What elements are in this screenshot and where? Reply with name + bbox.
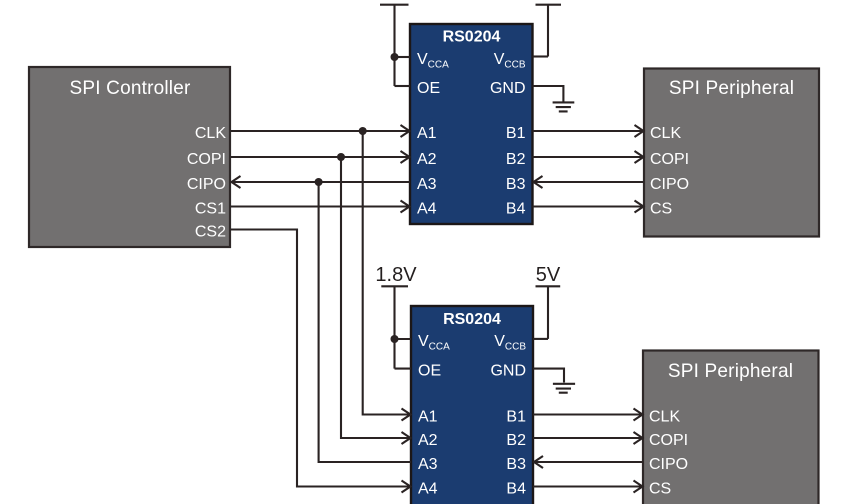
- svg-text:CIPO: CIPO: [649, 456, 688, 473]
- svg-text:A4: A4: [418, 480, 438, 497]
- svg-text:B1: B1: [506, 125, 526, 142]
- wire CIPO to B3 (bottom peripheral): [535, 461, 644, 463]
- svg-text:A1: A1: [417, 125, 437, 142]
- wire VCCB stub (U2): [533, 338, 548, 340]
- wire CLK branch to A1 (U2): [363, 131, 410, 415]
- svg-text:B4: B4: [506, 480, 526, 497]
- svg-text:OE: OE: [417, 80, 440, 97]
- svg-text:SPI Peripheral: SPI Peripheral: [669, 78, 794, 99]
- arrowhead CIPO (controller): [232, 176, 241, 188]
- svg-text:1.8V: 1.8V: [375, 264, 417, 286]
- wire VCCB stub (U1): [533, 55, 549, 57]
- svg-text:A4: A4: [417, 200, 437, 217]
- junction dot CLK branch: [359, 127, 367, 135]
- arrowhead B1 (top peripheral): [635, 125, 644, 137]
- junction dot COPI branch: [337, 153, 345, 161]
- wire VCCA stub (U1): [395, 56, 411, 58]
- svg-text:COPI: COPI: [649, 432, 688, 449]
- supply rail VCCB (top, unlabeled): [536, 5, 562, 57]
- arrowhead A4 (U1): [401, 201, 410, 213]
- wire VCCA stub (U2): [395, 338, 412, 340]
- svg-text:B1: B1: [506, 408, 526, 425]
- SPI Peripheral box (top): [644, 69, 819, 237]
- wire CLK to A1: [231, 130, 409, 132]
- arrowhead A2 (U1): [401, 151, 410, 163]
- arrowhead A1 (U2): [402, 409, 411, 421]
- level shifter U1 RS0204 (top): [410, 24, 533, 224]
- wire COPI branch to A2 (U2): [341, 157, 410, 438]
- wire CS1 to A4: [231, 205, 409, 207]
- svg-text:B2: B2: [506, 432, 526, 449]
- junction dot CIPO branch: [315, 178, 323, 186]
- junction dot VCCA (U2): [391, 335, 399, 343]
- wire GND (U1): [533, 86, 564, 102]
- svg-text:CS1: CS1: [195, 200, 226, 217]
- svg-text:CLK: CLK: [195, 125, 226, 142]
- arrowhead B3 (U1): [534, 176, 543, 188]
- SPI Controller box: [29, 67, 230, 247]
- svg-text:B4: B4: [506, 200, 526, 217]
- svg-text:RS0204: RS0204: [443, 311, 501, 328]
- svg-text:CIPO: CIPO: [187, 176, 226, 193]
- wire B2 to COPI (top peripheral): [533, 156, 643, 158]
- svg-text:B2: B2: [506, 151, 526, 168]
- svg-text:A2: A2: [417, 151, 437, 168]
- svg-text:A1: A1: [418, 408, 438, 425]
- level shifter U2 RS0204 (bottom): [411, 306, 533, 504]
- svg-text:CLK: CLK: [649, 408, 680, 425]
- svg-text:B3: B3: [506, 176, 526, 193]
- arrowhead B4 (top peripheral): [635, 201, 644, 213]
- wire CS2 to A4 (U2): [231, 230, 410, 487]
- wire COPI to A2: [231, 156, 409, 158]
- arrowhead B3 (U2): [534, 456, 543, 468]
- svg-text:A3: A3: [418, 456, 438, 473]
- arrowhead B2 (bottom peripheral): [634, 432, 643, 444]
- junction dot VCCA (U1): [391, 53, 399, 61]
- svg-text:CS: CS: [649, 480, 671, 497]
- svg-text:B3: B3: [506, 456, 526, 473]
- SPI Peripheral box (bottom): [643, 351, 819, 504]
- arrowhead A4 (U2): [402, 481, 411, 493]
- wire OE stub (U1): [395, 85, 411, 87]
- svg-text:COPI: COPI: [650, 151, 689, 168]
- arrowhead B2 (top peripheral): [635, 151, 644, 163]
- svg-text:OE: OE: [418, 363, 441, 380]
- wire B4 to CS (top peripheral): [533, 205, 643, 207]
- supply rail VCCA (top, unlabeled): [380, 5, 409, 86]
- svg-text:CIPO: CIPO: [650, 176, 689, 193]
- wire B2 to COPI (bottom peripheral): [533, 437, 642, 439]
- ground symbol (bottom): [553, 384, 575, 393]
- svg-text:SPI Peripheral: SPI Peripheral: [668, 361, 793, 382]
- ground symbol (top): [553, 102, 575, 111]
- arrowhead B4 (bottom peripheral): [634, 481, 643, 493]
- svg-text:SPI Controller: SPI Controller: [69, 78, 191, 99]
- wire GND (U2): [533, 369, 564, 383]
- arrowhead A2 (U2): [402, 432, 411, 444]
- wire B1 to CLK (top peripheral): [533, 130, 643, 132]
- wire A3 to CIPO: [232, 181, 410, 183]
- wire OE stub (U2): [395, 368, 412, 370]
- wire B1 to CLK (bottom peripheral): [533, 413, 642, 415]
- svg-text:COPI: COPI: [187, 151, 226, 168]
- arrowhead B1 (bottom peripheral): [634, 409, 643, 421]
- supply rail 1.8V: [381, 286, 408, 368]
- svg-text:A3: A3: [417, 176, 437, 193]
- svg-text:A2: A2: [418, 432, 438, 449]
- wire CIPO to B3 (top peripheral): [534, 181, 644, 183]
- wire B4 to CS (bottom peripheral): [533, 485, 642, 487]
- svg-text:CLK: CLK: [650, 125, 681, 142]
- svg-text:CS: CS: [650, 200, 672, 217]
- svg-text:5V: 5V: [536, 264, 561, 286]
- svg-text:GND: GND: [490, 363, 526, 380]
- svg-text:GND: GND: [490, 80, 526, 97]
- wire CIPO branch to A3 (U2): [319, 182, 411, 462]
- arrowhead A1 (U1): [401, 125, 410, 137]
- svg-text:RS0204: RS0204: [443, 29, 501, 46]
- all wires and symbols stroke group: [231, 5, 645, 493]
- svg-text:CS2: CS2: [195, 223, 226, 240]
- supply rail 5V: [536, 286, 561, 339]
